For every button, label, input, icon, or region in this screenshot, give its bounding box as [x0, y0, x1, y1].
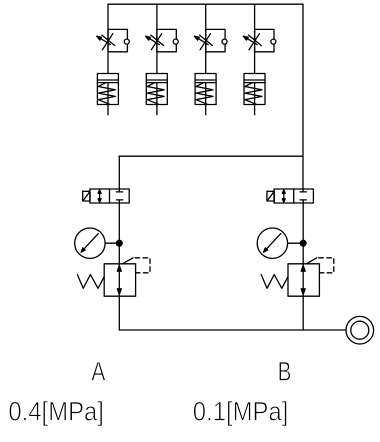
pressure regulator RA [77, 258, 150, 296]
svg-text:0.4[MPa]: 0.4[MPa] [8, 397, 104, 427]
air supply source P [346, 316, 374, 344]
flow control valve FC4 [243, 29, 276, 51]
pressure gauge GA [75, 228, 120, 258]
flow control valve FC3 [195, 29, 228, 51]
wire: valve A outlet down to bottom bus [118, 200, 120, 330]
wire: branch 4 drop [254, 4, 256, 73]
flow control valve FC2 [146, 29, 179, 51]
wire: branch 1 drop [107, 4, 109, 73]
flow control valve FC1 [97, 29, 130, 51]
pressure regulator RB [261, 258, 334, 296]
wire: bottom bus [119, 329, 346, 331]
pressure gauge GB [257, 228, 303, 258]
cylinder CYL2 (spring return) [146, 74, 167, 115]
svg-text:0.1[MPa]: 0.1[MPa] [193, 397, 288, 427]
cylinder CYL3 (spring return) [195, 74, 216, 115]
node: junction B (gauge tap) [300, 240, 306, 246]
value label 0.1[MPa] [193, 397, 288, 427]
wire: mid bus [119, 155, 303, 157]
wire: valve A inlet drop [118, 156, 120, 192]
wire: branch 3 drop [205, 4, 207, 73]
cylinder CYL1 (spring return) [97, 74, 118, 115]
cylinder CYL4 (spring return) [244, 74, 265, 115]
solenoid valve VA [83, 189, 130, 203]
solenoid valve VB [267, 189, 314, 203]
wire: branch 2 drop [156, 4, 158, 73]
label A [91, 357, 105, 387]
svg-text:A: A [91, 357, 105, 387]
svg-text:B: B [278, 357, 292, 387]
wire: top supply bus [108, 3, 303, 5]
wire: valve B outlet down to bottom bus [302, 200, 304, 330]
wire: right supply drop [302, 4, 304, 192]
node: junction A (gauge tap) [116, 240, 122, 246]
label B [278, 357, 292, 387]
value label 0.4[MPa] [8, 397, 104, 427]
